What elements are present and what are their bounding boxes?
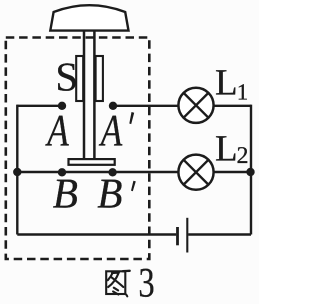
svg-text:A: A [98,105,122,155]
svg-text:L: L [215,62,238,103]
svg-text:2: 2 [237,143,249,169]
svg-text:3: 3 [138,261,154,304]
svg-text:A: A [45,105,69,155]
svg-text:L: L [215,128,238,169]
svg-text:S: S [55,53,78,99]
svg-text:B: B [53,170,78,217]
svg-text:B: B [97,170,122,217]
svg-text:1: 1 [237,79,249,104]
